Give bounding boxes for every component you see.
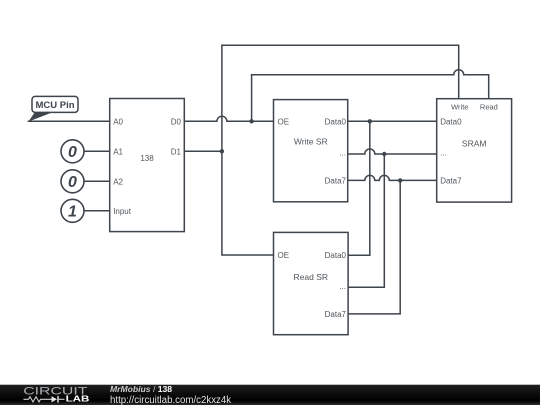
svg-text:http://circuitlab.com/c2kxz4k: http://circuitlab.com/c2kxz4k — [110, 395, 231, 405]
wire Data0 bus Write SR to SRAM — [348, 120, 437, 122]
svg-text:Data0: Data0 — [440, 117, 462, 126]
wire Data7 bus Write SR to SRAM with hops over x369.8 x384.3 — [348, 175, 437, 180]
svg-text:OE: OE — [278, 117, 290, 126]
logic input 1 on Input — [61, 199, 84, 222]
svg-text:A0: A0 — [113, 117, 123, 126]
junction dot D0 node — [249, 119, 253, 123]
decoder U1 138 — [110, 99, 185, 232]
svg-text:Read: Read — [480, 103, 498, 112]
svg-text:Data7: Data7 — [325, 176, 347, 185]
svg-text:LAB: LAB — [66, 395, 90, 404]
svg-text:...: ... — [339, 148, 346, 157]
svg-text:138: 138 — [140, 154, 154, 163]
wire Input from logic 1 to 138 — [84, 210, 110, 212]
wire Read SR Data7 riser — [348, 180, 400, 314]
svg-text:Write: Write — [451, 103, 468, 112]
wire vertical from top run down through D0 crossing to Read SR OE — [222, 45, 274, 255]
svg-text:Data7: Data7 — [325, 310, 347, 319]
wire A0 from MCU Pin flag to 138 — [28, 120, 109, 122]
svg-text:D0: D0 — [171, 117, 182, 126]
wire D0 from 138 to Write SR OE with hop over x221.9 — [184, 116, 273, 121]
svg-text:MrMobius / 138: MrMobius / 138 — [110, 384, 172, 394]
svg-text:Data0: Data0 — [325, 251, 347, 260]
svg-text:OE: OE — [278, 251, 290, 260]
footer bar — [0, 385, 540, 405]
logic input 0 on A2 — [61, 170, 84, 193]
logo CIRCUIT LAB — [23, 385, 89, 404]
shift register U2 Write SR — [274, 100, 348, 202]
wire A1 from logic 0 to 138 — [84, 150, 110, 152]
svg-text:0: 0 — [68, 174, 77, 191]
footer url — [110, 395, 231, 405]
svg-text:SRAM: SRAM — [462, 139, 487, 149]
logic input 0 on A1 — [61, 140, 84, 163]
wire dots bus Write SR to SRAM with hop over x369.8 — [348, 149, 437, 154]
junction dot D1 node — [220, 149, 224, 153]
svg-text:Write SR: Write SR — [294, 137, 328, 147]
wire A2 from logic 0 to 138 — [84, 180, 110, 182]
svg-text:Data7: Data7 — [440, 176, 462, 185]
svg-text:Read SR: Read SR — [294, 272, 329, 282]
svg-text:Data0: Data0 — [325, 117, 347, 126]
svg-text:D1: D1 — [171, 147, 182, 156]
svg-text:...: ... — [440, 148, 447, 157]
svg-text:...: ... — [339, 282, 346, 291]
flag MCU Pin — [28, 96, 78, 121]
svg-text:A2: A2 — [113, 177, 123, 186]
svg-text:A1: A1 — [113, 147, 123, 156]
wire vertical from D0 junction up to second run — [251, 75, 253, 122]
junction dot Data7 node — [398, 178, 402, 182]
wire D1 from 138 to vertical — [184, 150, 222, 152]
wire Read SR Data0 riser — [348, 121, 370, 255]
footer title MrMobius / 138 — [110, 384, 172, 394]
svg-text:MCU Pin: MCU Pin — [35, 100, 74, 111]
junction dot Data0 node — [368, 119, 372, 123]
junction dot dots node — [382, 152, 386, 156]
svg-text:0: 0 — [68, 144, 77, 161]
svg-text:1: 1 — [68, 204, 77, 221]
svg-text:Input: Input — [113, 207, 132, 216]
wire net D1 top run to SRAM Write — [222, 45, 459, 98]
memory U4 SRAM — [437, 99, 512, 202]
shift register U3 Read SR — [274, 232, 349, 334]
wire Read SR dots riser — [348, 154, 384, 287]
wire net D0 run to SRAM Read with hop over x458.7 — [252, 70, 489, 99]
